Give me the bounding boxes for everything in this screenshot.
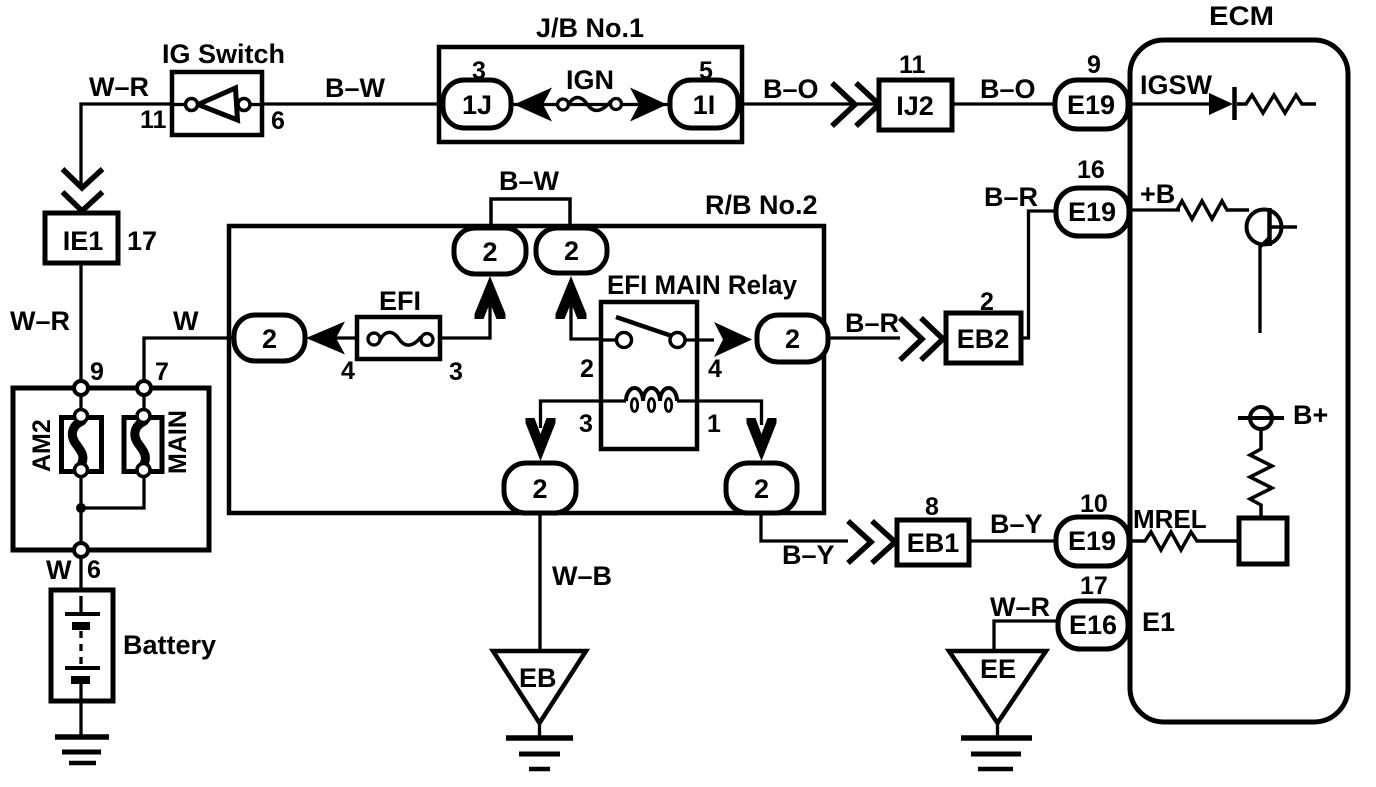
svg-text:3: 3 — [472, 57, 486, 85]
svg-text:R/B No.2: R/B No.2 — [705, 190, 818, 220]
svg-text:IG Switch: IG Switch — [162, 39, 285, 69]
svg-text:9: 9 — [90, 358, 104, 386]
MAIN fuse wires — [81, 388, 144, 508]
connector 2 (left) — [234, 315, 305, 361]
svg-text:EB1: EB1 — [907, 528, 960, 558]
EFI fuse box — [357, 317, 440, 359]
svg-text:2: 2 — [785, 324, 800, 354]
svg-text:4: 4 — [341, 357, 355, 385]
wire W-R down — [79, 263, 82, 388]
wire B-O 2 — [952, 102, 1056, 105]
wire B-W — [262, 102, 439, 105]
svg-text:ECM: ECM — [1209, 1, 1274, 31]
pin 7 circle — [137, 381, 151, 395]
svg-text:6: 6 — [271, 107, 285, 135]
ground EB — [493, 651, 586, 723]
pin 6 circle — [74, 543, 88, 557]
svg-text:EE: EE — [980, 654, 1016, 684]
chevron arrows down (left) — [63, 169, 103, 188]
IE1 box pin 17 — [45, 213, 118, 263]
junction dot — [76, 503, 86, 513]
svg-text:IGN: IGN — [566, 65, 614, 95]
svg-text:IGSW: IGSW — [1140, 70, 1213, 100]
svg-text:EB2: EB2 — [957, 324, 1010, 354]
EB2 box pin 2 — [946, 313, 1021, 363]
svg-text:W–R: W–R — [10, 306, 70, 336]
svg-text:17: 17 — [1080, 572, 1108, 600]
MAIN fuse — [124, 418, 162, 472]
svg-text:17: 17 — [127, 226, 157, 256]
ground EE — [949, 651, 1046, 723]
svg-text:AM2: AM2 — [28, 419, 56, 472]
svg-text:2: 2 — [754, 474, 769, 504]
svg-text:2: 2 — [980, 288, 994, 316]
wire inside J/B — [511, 103, 670, 106]
connector 1I pin 5 — [670, 80, 738, 128]
coil wire right — [677, 401, 762, 425]
resistor IGSW — [1237, 95, 1316, 113]
arrow right into oval — [714, 322, 752, 357]
+B line with resistor — [1129, 208, 1180, 211]
svg-text:11: 11 — [140, 106, 167, 134]
svg-text:W–B: W–B — [552, 561, 612, 591]
B+ symbol — [1250, 407, 1272, 429]
svg-text:9: 9 — [1087, 51, 1101, 79]
svg-text:B–O: B–O — [763, 74, 819, 104]
IG switch symbol — [186, 88, 251, 120]
svg-text:E1: E1 — [1142, 607, 1175, 637]
ECM box — [1130, 40, 1348, 722]
fuse block box — [13, 388, 209, 550]
pin 9 circle — [74, 381, 88, 395]
svg-text:B–Y: B–Y — [782, 540, 835, 570]
svg-text:2: 2 — [580, 355, 594, 383]
relay switch — [601, 338, 617, 341]
svg-text:8: 8 — [925, 493, 939, 521]
IG Switch box — [172, 72, 262, 135]
svg-text:B–R: B–R — [845, 308, 899, 338]
svg-text:B–Y: B–Y — [990, 509, 1043, 539]
IGSW line — [1128, 102, 1209, 105]
svg-text:E19: E19 — [1067, 90, 1115, 120]
svg-text:B+: B+ — [1293, 400, 1328, 430]
svg-text:MAIN: MAIN — [164, 410, 192, 474]
arrow left into oval 2 — [306, 322, 345, 355]
wire B-O — [742, 102, 879, 105]
arrow down to oval (right) — [747, 418, 777, 461]
svg-text:3: 3 — [579, 410, 593, 438]
svg-text:B–R: B–R — [984, 182, 1038, 212]
svg-text:W: W — [173, 306, 199, 336]
connector 2 (right B-R) — [757, 315, 828, 362]
connector 1J pin 3 — [443, 80, 511, 128]
wire W-R from corner to IG switch — [81, 104, 172, 187]
svg-text:11: 11 — [899, 51, 926, 79]
connector E19 pin 9 — [1055, 80, 1128, 129]
svg-text:2: 2 — [532, 474, 547, 504]
wire from EFI fuse up to oval A — [440, 290, 490, 338]
diode — [1209, 93, 1233, 115]
svg-text:EFI: EFI — [379, 286, 421, 316]
svg-text:2: 2 — [564, 236, 579, 266]
wire B-Y EB1 to E19 — [969, 539, 1056, 542]
connector 2 (bottom right) — [726, 463, 797, 513]
wire B-Y from relay oval — [761, 513, 848, 541]
wire W from fuse box to oval left — [144, 338, 234, 388]
AM2 fuse — [62, 418, 102, 472]
transistor — [1247, 210, 1282, 245]
svg-text:EFI MAIN Relay: EFI MAIN Relay — [607, 270, 797, 300]
svg-text:E19: E19 — [1068, 526, 1116, 556]
connector E16 pin 17 — [1058, 601, 1128, 649]
connector 2 (top B) — [536, 228, 607, 273]
chevrons into EB2 — [900, 318, 922, 360]
svg-text:16: 16 — [1077, 156, 1105, 184]
R/B No.2 box — [229, 226, 824, 513]
svg-text:J/B No.1: J/B No.1 — [536, 13, 644, 43]
wire W-B down to EB ground — [538, 513, 541, 651]
wire under oval B to relay — [571, 290, 617, 339]
connector 2 (bottom left) — [504, 463, 576, 513]
battery plates — [79, 596, 82, 614]
svg-text:1I: 1I — [693, 90, 716, 120]
svg-text:6: 6 — [87, 556, 101, 584]
relay coil — [626, 388, 677, 401]
svg-text:B–W: B–W — [499, 166, 560, 196]
ground battery — [55, 734, 109, 740]
wire to battery — [79, 557, 82, 614]
J/B No.1 box — [439, 47, 742, 142]
svg-text:1J: 1J — [462, 90, 492, 120]
connector 2 (top A) — [454, 228, 526, 274]
arrow up under oval B — [556, 276, 587, 319]
relay box — [601, 302, 697, 449]
svg-text:2: 2 — [482, 237, 497, 267]
svg-text:MREL: MREL — [1133, 504, 1207, 534]
connector E19 pin 10 — [1056, 517, 1129, 566]
fuse IGN symbol — [558, 99, 569, 110]
svg-text:W–R: W–R — [89, 72, 149, 102]
B-W bridge — [491, 199, 570, 228]
svg-text:10: 10 — [1080, 490, 1108, 518]
wire fuse to arrow — [330, 336, 357, 339]
chevrons into EB1 — [848, 521, 871, 563]
AM2 fuse wires — [79, 388, 82, 550]
wire B-R to chevrons — [828, 336, 900, 339]
arrow left (into 1J) — [514, 88, 552, 122]
svg-text:E16: E16 — [1069, 610, 1117, 640]
connector IJ2 pin 11 — [879, 80, 952, 130]
svg-text:IE1: IE1 — [63, 226, 104, 256]
svg-text:B–O: B–O — [980, 74, 1036, 104]
+B row: wire B-R from EB2 to E19(16) — [1021, 211, 1056, 338]
svg-text:W: W — [46, 555, 72, 585]
EB1 box pin 8 — [897, 520, 969, 565]
svg-text:+B: +B — [1140, 179, 1175, 209]
arrow right (into 1I) — [630, 88, 667, 122]
chevrons into IJ2 — [832, 83, 855, 126]
svg-text:3: 3 — [449, 358, 463, 386]
svg-text:Battery: Battery — [123, 630, 216, 660]
svg-text:IJ2: IJ2 — [896, 91, 934, 121]
svg-text:4: 4 — [708, 355, 722, 383]
svg-text:7: 7 — [155, 358, 169, 386]
svg-text:1: 1 — [707, 410, 721, 438]
arrow up under oval A — [475, 276, 506, 319]
coil wire left — [541, 401, 627, 428]
svg-text:5: 5 — [699, 57, 713, 85]
svg-text:2: 2 — [262, 324, 277, 354]
svg-text:E19: E19 — [1068, 197, 1116, 227]
driver square — [1239, 518, 1287, 564]
wire W-R to EE — [994, 621, 1058, 651]
svg-text:W–R: W–R — [990, 592, 1050, 622]
wire stubs inside IG switch — [172, 103, 186, 106]
battery box — [51, 590, 113, 701]
svg-text:B–W: B–W — [325, 73, 386, 103]
arrow down to oval (left) — [526, 418, 556, 461]
connector E19 pin 16 — [1056, 188, 1129, 236]
vertical resistor — [1250, 429, 1272, 518]
svg-text:EB: EB — [519, 663, 557, 693]
